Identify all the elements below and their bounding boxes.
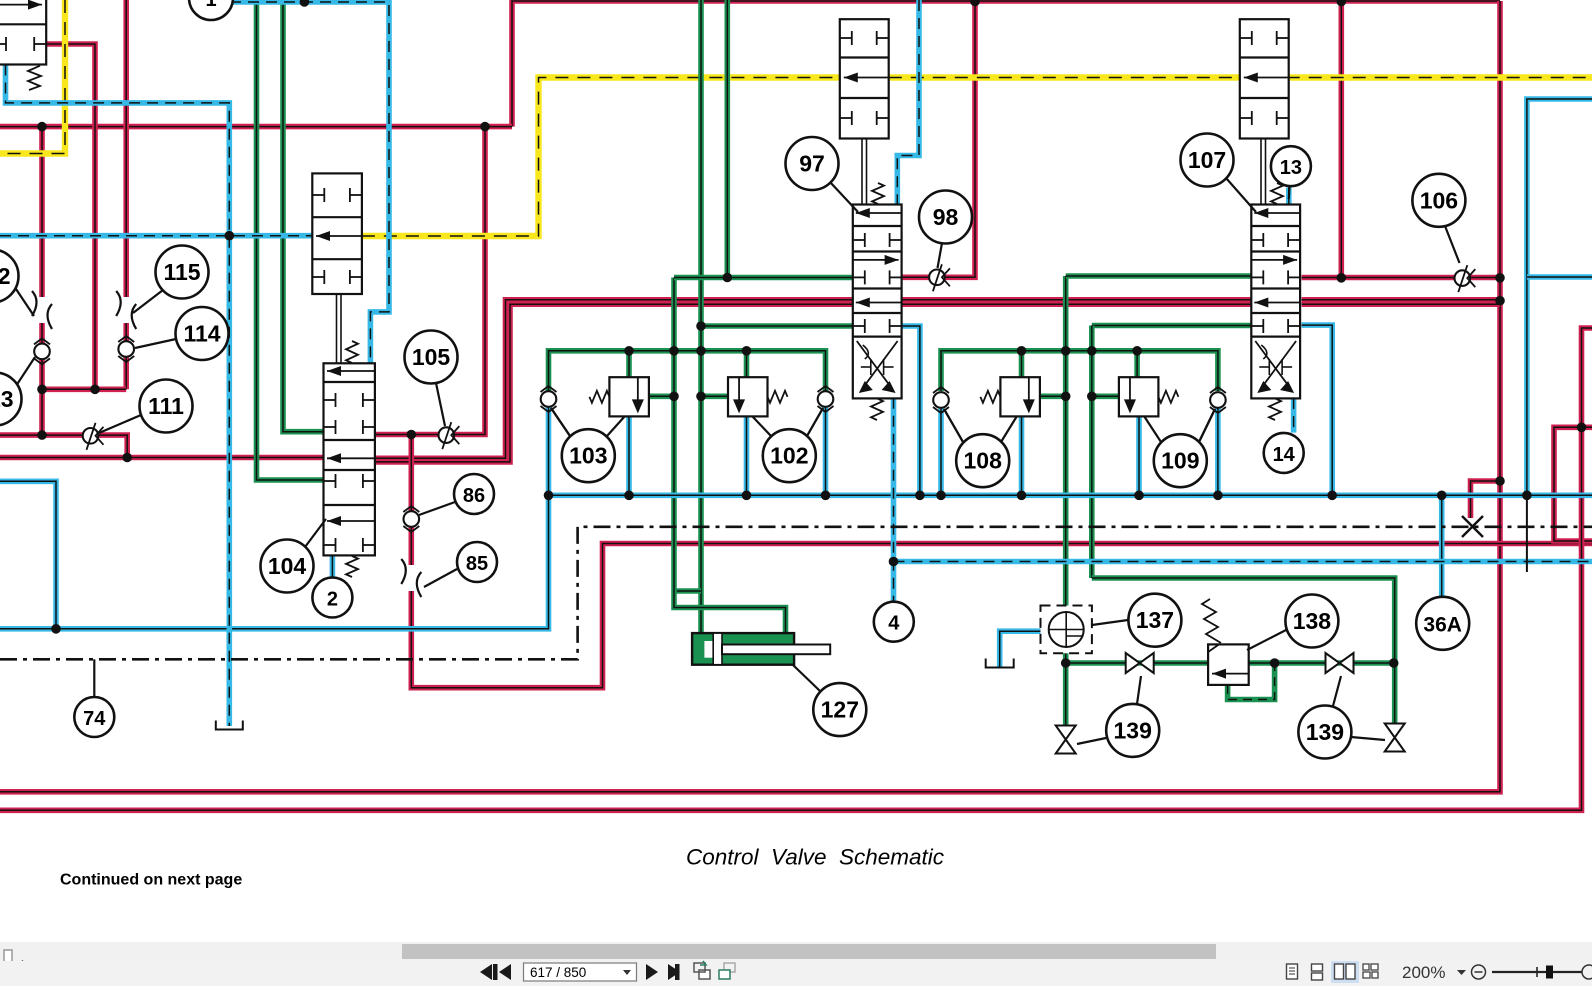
label circle 36A [1416, 597, 1469, 650]
wire red pair valve97-valve107 lower [902, 301, 1252, 307]
valve 107 pilot stage [1240, 19, 1289, 204]
wire red valve104 port C to valve97 [375, 304, 853, 462]
window icon 1 [694, 961, 710, 979]
wire red return via x411 [411, 435, 1592, 688]
wire green LS rail right [941, 351, 1218, 391]
check valve check 102 [818, 386, 834, 412]
gate valve 139 left [1126, 653, 1154, 673]
relief valve 109 [1119, 377, 1179, 416]
page number box 617/850 [524, 963, 637, 981]
label circle 106 [1412, 174, 1465, 263]
window icon 2 [719, 963, 735, 979]
wire pilot header y561 [894, 559, 1592, 565]
wire green pump pressure line lower [1063, 648, 1069, 726]
wire cyan tank line left L [0, 481, 56, 629]
wire green relief109 top [1134, 351, 1140, 377]
label circle 102 [763, 408, 823, 482]
wire cyan check102 drain [823, 407, 829, 496]
wire green crossover bar [674, 588, 701, 594]
svg-text:1: 1 [205, 0, 216, 11]
boundary tick to 74 [93, 659, 95, 697]
tank symbol left [216, 721, 243, 730]
check valve check 106 [1455, 265, 1476, 292]
valve 107 main stage [1251, 205, 1300, 421]
label circle 115 [133, 246, 209, 314]
wire green valve97 port y277 [674, 275, 853, 281]
svg-text:103: 103 [569, 443, 607, 469]
leader 102 second [752, 416, 771, 436]
wire cyan valve97 work port [902, 326, 920, 495]
wire green relief109 side [1092, 393, 1119, 399]
wire cyan to 36A [1439, 495, 1445, 596]
relief valve 102 [728, 377, 788, 416]
check valve check 112 line [34, 338, 50, 364]
wire cyan tank header y628 [0, 407, 549, 629]
valve V0 top-left partial [0, 0, 46, 90]
wire green relief103 side [649, 393, 674, 399]
shutoff valve under pump [1056, 726, 1076, 754]
nav prev page button [499, 964, 511, 980]
wire green fill line y578 [1092, 578, 1395, 724]
leader 139L second [1077, 738, 1106, 744]
wire cyan right edge line [1527, 99, 1592, 495]
label circle 85 [424, 542, 497, 587]
wire green supply y663 right [1249, 660, 1394, 666]
wire pilot valve97 staircase [897, 0, 919, 205]
svg-text:139: 139 [1114, 717, 1152, 743]
wire green fill line upper [1089, 326, 1095, 579]
boundary dash-dot line [0, 527, 1592, 660]
wire green valve104 work A [257, 0, 324, 480]
label circle 138 [1247, 595, 1338, 651]
page layout icon two-up selected [1331, 961, 1359, 983]
wire red top supply rail [512, 1, 1500, 127]
label circle 4 [874, 602, 914, 642]
wire cyan valve104 drain stub [330, 555, 336, 577]
svg-text:4: 4 [888, 613, 900, 635]
wire green relief103 top [626, 351, 632, 377]
svg-text:102: 102 [770, 443, 808, 469]
svg-text:115: 115 [163, 259, 200, 285]
check valve check 86 line [403, 506, 419, 532]
label circle 103 [551, 408, 615, 482]
label circle 108 [944, 409, 1009, 487]
relief valve 108 [980, 377, 1040, 416]
wire green LS rail left [549, 351, 826, 391]
wire cyan relief102 drain [744, 416, 750, 495]
svg-text:114: 114 [183, 321, 220, 347]
svg-text:104: 104 [268, 553, 307, 579]
label circle 2 [312, 578, 352, 618]
wire red header y126 [0, 124, 512, 130]
svg-text:13: 13 [1280, 157, 1302, 179]
wire pilot valve107 bottom to 14 [1291, 398, 1297, 433]
left scroll icons [4, 950, 24, 971]
label circle 86 [419, 474, 494, 515]
svg-text:Control Valve Schematic: Control Valve Schematic [686, 845, 944, 870]
svg-text:105: 105 [412, 344, 451, 370]
leader 109 second [1144, 416, 1161, 442]
svg-text:127: 127 [821, 697, 859, 723]
nav last page button [668, 964, 680, 980]
coupler on x126 [116, 291, 136, 329]
wire green valve97 port y326 [701, 323, 853, 329]
wire red valve104 port A [375, 127, 485, 435]
wire red right stub y427 [1554, 427, 1592, 541]
check valve check 109 [1210, 387, 1226, 413]
leader 103 second [607, 416, 625, 436]
gate valve 139 right [1326, 653, 1354, 673]
label circle 13 [1271, 146, 1311, 199]
label circle 112 [0, 250, 34, 317]
svg-text:85: 85 [466, 553, 488, 575]
toolbar background [0, 961, 1592, 986]
wire red pair valve97-valve107 upper [902, 297, 1252, 303]
label circle 137 [1092, 594, 1181, 647]
label circle 14 [1264, 433, 1304, 473]
label circle 113 [0, 357, 35, 426]
wire pilot from circle1 [230, 2, 389, 363]
valve 104 main stage [324, 363, 375, 577]
label circle 109 [1154, 409, 1215, 487]
wire cyan pump suction [1000, 631, 1041, 667]
relief valve 138 [1202, 599, 1249, 685]
tank symbol pump suction [986, 659, 1014, 668]
check valve check 98 [929, 264, 950, 291]
label circle 139 right [1298, 676, 1351, 759]
valve 104 pilot stage [312, 173, 362, 363]
svg-text:200%: 200% [1402, 963, 1445, 982]
wire red valve97 top port right [902, 2, 975, 277]
wire cyan relief103 drain [626, 416, 632, 495]
wire yellow left pilot [0, 0, 65, 154]
page layout icon two-up continuous [1363, 964, 1378, 978]
svg-text:617 / 850: 617 / 850 [530, 965, 586, 980]
label circle 97 [786, 137, 859, 212]
svg-text:14: 14 [1273, 444, 1296, 466]
label circle 104 [261, 519, 327, 593]
svg-text:Continued on next page: Continued on next page [60, 872, 242, 889]
wire pilot header y235 [0, 233, 312, 239]
label circle 105 [405, 331, 458, 427]
wire yellow pilot valve104 to rail [362, 78, 840, 237]
wire green pump pressure line upper [1063, 276, 1069, 613]
wire cyan right edge stub y277 [1527, 274, 1592, 280]
label circle 1 [189, 0, 233, 20]
wire green valve107 port y276 [1066, 273, 1252, 279]
label circle 127 [793, 665, 866, 736]
svg-text:74: 74 [83, 708, 106, 730]
leader 139R second [1351, 737, 1385, 740]
check valve check 105 line [439, 422, 460, 449]
svg-text:98: 98 [933, 204, 959, 230]
zoom controls [1402, 963, 1592, 982]
svg-text:109: 109 [1161, 448, 1199, 474]
svg-text:138: 138 [1293, 608, 1332, 634]
relief valve 103 [589, 377, 649, 416]
nav next page button [646, 964, 658, 980]
wire red link y389 [42, 386, 126, 392]
wire green riser x727 [724, 0, 730, 278]
label circle 139 left [1106, 676, 1159, 757]
wire green relief102 top [744, 351, 750, 377]
svg-text:2: 2 [327, 589, 338, 611]
shutoff valve right [1385, 724, 1405, 752]
wire red line y435 left [0, 435, 127, 457]
coupler on x411 [401, 559, 421, 597]
wire red branch x126 [123, 0, 129, 389]
plain line below cyan x1527 [1526, 495, 1528, 572]
wire red valve104 port B to valve97 [375, 300, 853, 459]
X terminator marker [1462, 516, 1483, 537]
pump 137 [1041, 606, 1092, 654]
page layout icon continuous [1312, 964, 1323, 980]
wire cyan relief109 drain [1136, 415, 1142, 495]
wire red pair right of valve107 lower [1302, 301, 1500, 307]
svg-text:86: 86 [463, 485, 485, 507]
leader 108 second [1001, 416, 1017, 442]
check valve check 108 [933, 387, 949, 413]
check valve check 114 line [118, 336, 134, 362]
page layout icon single [1287, 964, 1298, 979]
wire red pair right of valve107 upper [1302, 297, 1500, 303]
wire yellow pilot rail right [1287, 74, 1592, 80]
wire green supply y663 left [1066, 660, 1208, 666]
wire green cylinder cap line [698, 0, 704, 633]
wire cyan return header y495 [549, 492, 1592, 498]
valve 97 main stage [853, 205, 902, 421]
scrollbar track [0, 942, 1592, 961]
wire red right main riser x1500 [0, 1, 1500, 792]
wire red branch x42 [39, 127, 45, 436]
check valve check 103 [541, 386, 557, 412]
valve 97 pilot stage [840, 19, 889, 204]
label circle 111 [99, 380, 193, 434]
wire cyan check108 drain [938, 408, 944, 495]
svg-text:107: 107 [1188, 147, 1226, 173]
wire yellow pilot rail mid [889, 74, 1240, 80]
wire red riser x1341 [1339, 0, 1345, 278]
wire cyan valve107 pilot stub [1286, 188, 1292, 205]
check valve check 111 line [83, 423, 104, 450]
label circle 107 [1181, 134, 1257, 213]
wire green relief108 side [1039, 393, 1066, 399]
wire green relief108 top [1019, 351, 1025, 377]
nav first page button [480, 964, 498, 980]
wire red right riser x1585 [0, 328, 1592, 810]
wire cyan valve107 work port [1302, 325, 1333, 495]
wire cyan check109 drain [1215, 408, 1221, 495]
wire red line y457 left [0, 455, 324, 461]
svg-text:108: 108 [964, 448, 1003, 474]
wire green relief102 side [701, 393, 728, 399]
wire pilot valve97 bottom to 4 [891, 398, 897, 602]
coupler on x42 [32, 291, 52, 329]
svg-text:111: 111 [148, 393, 184, 419]
svg-text:137: 137 [1136, 607, 1174, 633]
wire red valve107 top port right [1302, 275, 1500, 281]
svg-text:139: 139 [1306, 719, 1344, 745]
wire green valve107 port y325 [1092, 323, 1252, 329]
wire green valve104 work B [283, 0, 324, 432]
caption Control Valve Schematic [686, 845, 944, 870]
wire cyan relief108 drain [1019, 415, 1025, 495]
svg-text:106: 106 [1420, 187, 1458, 213]
label circle 114 [135, 307, 229, 360]
wire green relief138 pilot loop [1228, 663, 1275, 700]
wire green cylinder rod line [674, 278, 786, 634]
wire pilot valve0 to tank [6, 65, 230, 727]
cylinder 127 [692, 633, 830, 665]
wire red valve0 outlet [46, 44, 95, 389]
label circle 74 [74, 697, 114, 737]
svg-text:112: 112 [0, 263, 11, 289]
note Continued on next page [60, 872, 242, 889]
wire red jog to X marker [1471, 481, 1501, 518]
svg-text:97: 97 [799, 151, 825, 177]
svg-text:36A: 36A [1423, 613, 1462, 636]
label circle 98 [919, 191, 972, 269]
svg-text:113: 113 [0, 386, 14, 412]
